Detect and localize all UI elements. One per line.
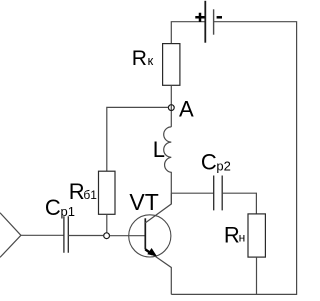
- wire collector junction to Cp2: [171, 192, 213, 194]
- battery GB short plate (-): [213, 9, 215, 34]
- resistor Rk: [163, 44, 180, 86]
- svg-text:R: R: [224, 223, 240, 248]
- battery GB long plate (+): [204, 1, 206, 43]
- wire Rk to node A and coil top: [170, 85, 172, 127]
- svg-text:C: C: [201, 150, 217, 175]
- svg-text:VT: VT: [129, 189, 158, 215]
- svg-text:R: R: [69, 179, 85, 204]
- input antenna symbol: [0, 213, 21, 258]
- svg-text:р2: р2: [216, 159, 230, 174]
- wire antenna to Cp1: [21, 234, 64, 236]
- wire Rn bottom to rail: [256, 257, 258, 294]
- inductor L coil: [164, 127, 172, 204]
- node A circle: [168, 105, 174, 111]
- capacitor Cp2 plates: [214, 176, 223, 211]
- label +: [195, 13, 204, 22]
- label -: [217, 16, 222, 19]
- svg-text:б1: б1: [83, 188, 97, 202]
- svg-text:A: A: [179, 96, 194, 121]
- emitter lead: [145, 249, 171, 294]
- capacitor Cp1 plates: [64, 216, 68, 253]
- wire Cp1 to node: [68, 235, 103, 237]
- svg-text:н: н: [239, 230, 246, 244]
- svg-text:C: C: [45, 195, 61, 220]
- emitter arrow: [145, 249, 152, 254]
- transistor base bar: [144, 218, 146, 249]
- resistor Rb1: [99, 171, 116, 214]
- wire battery to right rail and bottom rail: [171, 22, 296, 295]
- wire Cp2 to Rn: [222, 193, 256, 214]
- base node circle: [104, 233, 110, 239]
- wire top left from Rk to battery +: [171, 22, 205, 44]
- transistor VT circle: [129, 215, 171, 257]
- svg-text:L: L: [153, 137, 165, 162]
- svg-text:R: R: [132, 47, 147, 70]
- resistor Rn: [248, 214, 265, 257]
- wire node to base: [110, 235, 146, 237]
- wire Rb1 bottom to base node: [106, 214, 108, 232]
- collector lead: [145, 193, 171, 223]
- wire node A to Rb1 top corner: [107, 107, 169, 171]
- svg-text:к: к: [148, 53, 154, 68]
- svg-text:р1: р1: [61, 204, 75, 219]
